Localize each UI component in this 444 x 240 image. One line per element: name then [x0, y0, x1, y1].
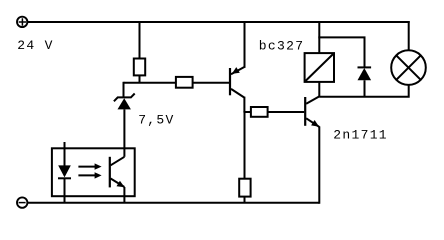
wire node to R3	[244, 111, 246, 179]
wire relay bottom	[318, 82, 320, 97]
battery negative terminal	[17, 197, 27, 207]
resistor R2	[176, 77, 193, 88]
wire R1 to mid rail	[139, 75, 141, 82]
resistor R3	[239, 179, 250, 197]
opto phototransistor	[110, 157, 125, 203]
light arrow upper	[78, 163, 101, 169]
resistor R1	[134, 59, 145, 76]
svg-text:24 V: 24 V	[17, 38, 53, 53]
light arrow lower	[78, 172, 101, 178]
wire relay feed	[318, 21, 320, 53]
svg-text:2n1711: 2n1711	[333, 128, 388, 143]
resistor R4	[251, 107, 268, 117]
wire bottom rail	[27, 202, 319, 204]
wire zener feed	[123, 82, 125, 98]
transistor Q1 bc327	[230, 21, 245, 112]
optocoupler U1 box	[52, 148, 135, 196]
relay coil K1	[305, 53, 334, 82]
wire node to R4	[243, 111, 251, 113]
wire lamp feed	[408, 21, 410, 51]
zener diode ZD1 7,5V	[114, 94, 135, 157]
wire mid rail	[124, 82, 177, 84]
svg-text:bc327: bc327	[259, 39, 305, 54]
wire R3 to bottom rail	[244, 197, 246, 203]
lamp L1	[391, 50, 426, 85]
wire resistor R1 feed	[139, 21, 141, 59]
wire lamp bottom	[319, 85, 408, 97]
battery positive terminal	[17, 17, 27, 27]
opto LED	[58, 165, 71, 202]
wire R4 to base	[268, 111, 305, 113]
transistor Q2 2n1711	[305, 96, 319, 203]
svg-text:7,5V: 7,5V	[138, 113, 174, 128]
opto LED anode stub	[64, 142, 66, 166]
wire R2 to base	[193, 82, 229, 84]
wire diode branch	[318, 37, 364, 67]
diode D1	[358, 67, 372, 96]
wire top rail	[27, 21, 409, 23]
